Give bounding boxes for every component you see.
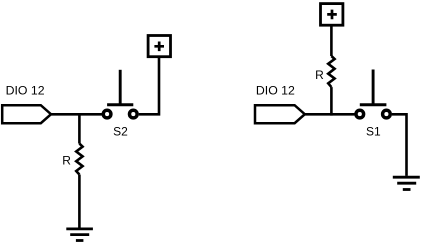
- svg-text:S2: S2: [113, 124, 128, 138]
- svg-text:R: R: [62, 154, 71, 168]
- svg-text:R: R: [315, 68, 324, 82]
- svg-text:S1: S1: [366, 124, 381, 138]
- svg-text:DIO 12: DIO 12: [6, 84, 45, 98]
- svg-text:DIO 12: DIO 12: [256, 84, 295, 98]
